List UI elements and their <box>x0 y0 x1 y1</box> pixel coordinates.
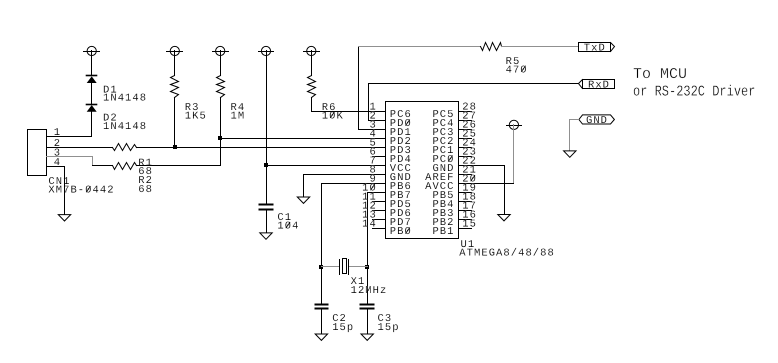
wire VCC down to C1 <box>266 51 268 205</box>
wire pin 22 GND to ground <box>459 166 505 215</box>
wire GND tag to ground (gray) <box>570 120 579 151</box>
power VCC symbol P5 <box>304 46 320 55</box>
ground GND tag <box>564 151 576 157</box>
svg-text:15: 15 <box>462 219 477 231</box>
power VCC symbol P1 <box>84 46 100 55</box>
ground under CN1 <box>58 215 70 221</box>
svg-text:1M: 1M <box>231 110 246 122</box>
wire R6 to PC6 pin 1 <box>312 98 386 112</box>
resistor R1 <box>113 144 154 179</box>
wire VCC to R4 <box>220 51 222 76</box>
resistor R5 <box>481 43 528 77</box>
tag RxD <box>579 80 615 92</box>
svg-text:1K5: 1K5 <box>185 110 207 122</box>
tag GND <box>579 115 615 127</box>
IC right pin names <box>425 109 454 238</box>
power VCC symbol P3 <box>213 46 229 55</box>
svg-text:RxD: RxD <box>588 80 610 92</box>
svg-text:14: 14 <box>362 219 377 231</box>
zero slashes (CAD font style) <box>86 66 525 233</box>
svg-text:68: 68 <box>138 184 153 196</box>
junction VCC/pin7 <box>264 163 268 167</box>
svg-text:15p: 15p <box>332 322 354 334</box>
ground under C1 <box>260 233 272 239</box>
wire AVCC pin 20 to VCC (gray vertical) <box>513 125 515 184</box>
wire RxD to tag <box>369 83 579 85</box>
resistor R2 <box>113 163 154 196</box>
wire PD2 net to pin 4 <box>221 138 386 140</box>
tag TxD <box>579 43 615 55</box>
wire pin 8 GND to ground <box>304 175 386 197</box>
svg-text:or RS-232C Driver: or RS-232C Driver <box>633 84 755 101</box>
junction R3/PD3 <box>173 145 177 149</box>
svg-text:PB0: PB0 <box>390 226 412 238</box>
svg-text:TxD: TxD <box>584 43 606 55</box>
IC left pin numbers <box>362 102 377 231</box>
wire VCC to D1 <box>91 51 93 76</box>
svg-text:15p: 15p <box>378 322 400 334</box>
wire VCC to R3 <box>174 51 176 76</box>
wire CN1 pin 3 (gray) <box>47 157 93 166</box>
wire C1 to ground <box>266 211 268 233</box>
power VCC symbol P6 (AVCC) <box>507 120 522 129</box>
junction crystal left <box>319 265 323 269</box>
svg-text:12MHz: 12MHz <box>351 285 388 297</box>
connector CN1 <box>28 127 115 197</box>
wire CN1 pin 2 to R1 <box>47 147 113 149</box>
svg-text:10K: 10K <box>322 110 344 122</box>
svg-text:To MCU: To MCU <box>633 66 687 83</box>
resistor R4 <box>217 76 246 123</box>
capacitor C3 <box>361 305 400 334</box>
power VCC symbol P4 <box>259 46 274 55</box>
wire R3 to PD3 net <box>174 98 176 148</box>
svg-text:GND: GND <box>586 115 608 127</box>
crystal X1 <box>322 259 388 298</box>
svg-text:104: 104 <box>277 221 299 233</box>
svg-text:ATMEGA8/48/88: ATMEGA8/48/88 <box>459 247 555 259</box>
wire pin 9 PB6 to crystal <box>322 184 386 304</box>
junction crystal right <box>365 265 369 269</box>
wire R2 up to PD2 net <box>137 139 221 166</box>
wire VCC net to pin 7 <box>267 165 386 167</box>
power VCC symbol P2 <box>167 46 183 55</box>
diode D1 <box>87 76 148 105</box>
diode D2 <box>87 105 148 133</box>
ground pin 22 <box>498 215 510 221</box>
wire R4 to PD2 net <box>220 98 222 139</box>
ground pin 8 <box>297 197 309 203</box>
wire D1 to D2 <box>91 83 93 105</box>
svg-text:470: 470 <box>506 64 528 76</box>
wire R1 to PD3 pin 5 <box>137 147 386 149</box>
IC right pin numbers <box>462 102 477 231</box>
capacitor C2 <box>316 305 355 334</box>
resistor R3 <box>171 76 207 123</box>
wire TxD net from pin 3 PD1 <box>359 47 386 130</box>
IC right pin stubs <box>459 112 472 229</box>
wire RxD net from pin 2 PD0 <box>369 84 386 121</box>
ground under C3 <box>361 334 373 340</box>
resistor R6 <box>308 76 344 123</box>
svg-text:XM7B-0442: XM7B-0442 <box>48 185 114 197</box>
capacitor C1 <box>260 205 300 233</box>
wire D2 to CN1 pin 1 <box>47 112 92 137</box>
junction R4/PD2 <box>218 136 222 140</box>
wire VCC to R6 <box>311 51 313 76</box>
IC left pin names <box>390 109 412 238</box>
svg-text:1N4148: 1N4148 <box>103 121 147 133</box>
svg-text:4: 4 <box>54 157 61 169</box>
wire C3 to ground <box>367 310 369 335</box>
IC left pin stubs <box>373 112 386 229</box>
svg-text:PB1: PB1 <box>432 226 454 238</box>
wire R5 to TxD tag (gray) <box>502 46 579 48</box>
wire pin 10 PB7 to crystal <box>368 193 386 304</box>
op-amp U1 ATMEGA8 IC body <box>386 102 459 239</box>
svg-text:1N4148: 1N4148 <box>103 93 147 105</box>
wire TxD to R5 (gray) <box>359 46 481 48</box>
ground under C2 <box>315 334 327 340</box>
wire pin3 jog to R2 <box>93 165 113 167</box>
wire C2 to ground <box>321 310 323 335</box>
wire CN1 pin 4 to ground <box>47 167 65 215</box>
